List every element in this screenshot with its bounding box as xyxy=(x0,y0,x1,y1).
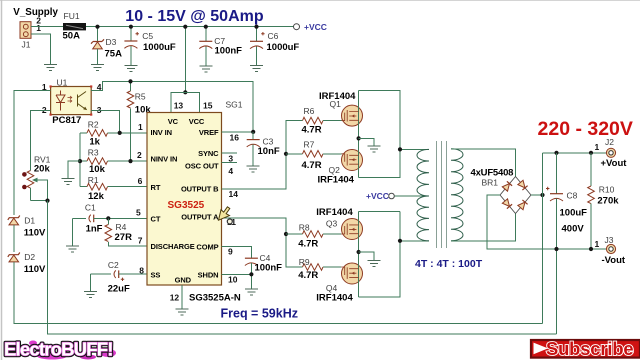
capacitor C8 xyxy=(546,153,587,249)
svg-text:7: 7 xyxy=(138,235,143,245)
ground (C6) xyxy=(250,66,263,72)
transformer core xyxy=(437,141,447,248)
svg-text:10nF: 10nF xyxy=(258,146,280,157)
wire pin12 to ground xyxy=(181,285,183,309)
svg-text:1: 1 xyxy=(595,239,600,249)
svg-text:RT: RT xyxy=(151,183,161,192)
svg-text:-Vout: -Vout xyxy=(602,255,626,266)
svg-text:SHDN: SHDN xyxy=(198,270,219,279)
svg-text:BR1: BR1 xyxy=(482,178,499,188)
svg-text:D3: D3 xyxy=(106,37,117,47)
wire +Vout line xyxy=(543,152,607,154)
connector J2 xyxy=(595,137,628,169)
bridge diode (right-bottom) xyxy=(518,200,528,210)
capacitor C5 xyxy=(124,25,176,66)
svg-text:R2: R2 xyxy=(88,120,99,130)
svg-text:6: 6 xyxy=(138,176,143,186)
svg-text:IRF1404: IRF1404 xyxy=(316,207,353,218)
wire pin4 stub xyxy=(222,162,238,164)
bridge diode (right-top) xyxy=(518,180,528,190)
wire OUTPUT A drive xyxy=(222,218,303,267)
svg-text:10k: 10k xyxy=(89,164,106,175)
ground (J1) xyxy=(44,65,57,71)
ground (D3) xyxy=(91,65,104,71)
svg-text:12k: 12k xyxy=(88,191,105,202)
wire secondary top to bridge xyxy=(451,149,516,177)
Subscribe button xyxy=(531,338,640,359)
svg-text:D1: D1 xyxy=(24,216,35,226)
resistor R6 xyxy=(302,106,342,135)
bridge BR1 diamond xyxy=(500,177,531,214)
svg-text:100nF: 100nF xyxy=(215,46,243,57)
svg-text:1nF: 1nF xyxy=(86,224,103,235)
svg-text:2: 2 xyxy=(137,150,142,160)
transformer T1 primary winding 2 xyxy=(417,196,429,241)
resistor R1 xyxy=(80,175,147,202)
wire Q1/Q2 drain-source box xyxy=(359,91,400,178)
svg-text:VCC: VCC xyxy=(189,117,205,126)
wire opto pin2 to RV1 xyxy=(31,111,51,171)
resistor R5 xyxy=(127,79,151,161)
svg-text:OUTPUT B: OUTPUT B xyxy=(181,184,219,193)
capacitor C2 xyxy=(91,260,149,295)
svg-text:C2: C2 xyxy=(108,260,119,270)
svg-text:4.7R: 4.7R xyxy=(298,270,318,281)
svg-text:20k: 20k xyxy=(34,164,51,175)
capacitor C7 xyxy=(199,25,242,66)
resistor R9 xyxy=(298,257,341,281)
wire D1-D2 xyxy=(13,225,15,252)
transformer T1 secondary winding xyxy=(451,149,463,241)
ground (C7) xyxy=(199,66,212,72)
svg-text:R10: R10 xyxy=(599,185,615,195)
wire R7 tap xyxy=(286,153,303,155)
wire to ground from R3 node xyxy=(68,161,80,178)
svg-text:VC: VC xyxy=(168,117,179,126)
ground (Q3/Q4 sources) xyxy=(357,250,361,254)
wire secondary bottom to bridge xyxy=(451,214,516,241)
transformer T1 primary winding 1 xyxy=(417,149,429,196)
svg-text:5: 5 xyxy=(136,208,141,218)
bridge diode (left-bottom) xyxy=(502,199,512,209)
svg-text:9: 9 xyxy=(228,247,233,257)
svg-text:+VCC: +VCC xyxy=(304,22,327,32)
svg-text:C8: C8 xyxy=(567,191,578,201)
svg-text:SG3525A-N: SG3525A-N xyxy=(189,292,241,303)
optocoupler U1 PC817 xyxy=(42,78,102,126)
svg-text:Q1: Q1 xyxy=(330,99,342,109)
svg-text:1k: 1k xyxy=(89,136,100,147)
svg-text:U1: U1 xyxy=(57,78,68,88)
potentiometer RV1 xyxy=(22,154,51,202)
svg-text:1: 1 xyxy=(36,23,41,33)
svg-text:CT: CT xyxy=(151,215,161,224)
wire primary1 top xyxy=(400,148,429,150)
svg-text:1: 1 xyxy=(595,142,600,152)
node +VCC (top) xyxy=(294,24,300,30)
wire bridge right to +V vertical xyxy=(531,194,543,196)
svg-text:C3: C3 xyxy=(263,137,274,147)
svg-text:INV IN: INV IN xyxy=(151,128,173,137)
svg-text:R5: R5 xyxy=(135,91,146,101)
svg-text:100uF: 100uF xyxy=(560,208,588,219)
svg-text:+VCC: +VCC xyxy=(366,191,389,201)
wire +V vertical down to rail1 xyxy=(542,153,544,324)
wire opto pin1 down left column xyxy=(14,91,51,215)
svg-text:220 - 320V: 220 - 320V xyxy=(538,118,633,140)
wire center tap xyxy=(394,195,429,197)
svg-text:4.7R: 4.7R xyxy=(298,238,318,249)
svg-text:22uF: 22uF xyxy=(108,284,130,295)
svg-text:13: 13 xyxy=(174,101,184,111)
transistor Q2 (mirrored) xyxy=(318,149,363,185)
svg-text:100nF: 100nF xyxy=(255,262,283,273)
svg-text:4.7R: 4.7R xyxy=(302,160,322,171)
transistor Q1 xyxy=(319,91,363,126)
svg-text:COMP: COMP xyxy=(196,243,218,252)
svg-text:75A: 75A xyxy=(105,49,123,60)
ground (C2) xyxy=(84,292,97,298)
svg-text:10 - 15V @ 50Amp: 10 - 15V @ 50Amp xyxy=(125,8,264,25)
svg-text:SG3525: SG3525 xyxy=(168,200,205,211)
ground (C5) xyxy=(124,66,137,72)
svg-text:8: 8 xyxy=(139,265,144,275)
wire J1 pin1 to ground xyxy=(31,34,51,64)
svg-text:270k: 270k xyxy=(597,195,619,206)
wire VCC drop to IC xyxy=(184,27,186,93)
transistor Q3 xyxy=(316,207,362,240)
svg-text:C5: C5 xyxy=(142,31,153,41)
wire D3 stub xyxy=(97,27,99,42)
ground (C4) xyxy=(245,289,258,295)
capacitor C4 xyxy=(245,253,282,289)
node +VCC (center tap) xyxy=(389,193,395,199)
connector J3 xyxy=(595,235,626,266)
resistor R2 xyxy=(80,120,147,148)
svg-text:16: 16 xyxy=(230,132,240,142)
svg-text:400V: 400V xyxy=(562,224,585,235)
svg-text:SS: SS xyxy=(151,270,161,279)
connector J1 xyxy=(13,7,58,50)
wire pin9 to C4 xyxy=(222,246,252,258)
svg-text:SG1: SG1 xyxy=(226,100,243,110)
svg-text:DISCHARGE: DISCHARGE xyxy=(151,242,195,251)
wire rail2 vertical to -Vout xyxy=(556,249,558,334)
svg-text:J1: J1 xyxy=(22,40,31,50)
ground (Q1/Q2 sources) xyxy=(357,136,361,140)
bridge diode (left-top) xyxy=(502,181,512,191)
frame edge lines xyxy=(0,0,640,2)
mouse cursor xyxy=(219,207,233,224)
fuse FU1 xyxy=(63,11,87,41)
ground (pin12) xyxy=(176,309,189,315)
ground (C3) xyxy=(247,166,260,172)
svg-text:14: 14 xyxy=(229,189,239,199)
svg-text:110V: 110V xyxy=(24,228,46,239)
svg-text:VREF: VREF xyxy=(199,128,219,137)
svg-text:IRF1404: IRF1404 xyxy=(318,174,355,185)
wire R2-R3-R1 left vertical xyxy=(79,133,81,187)
svg-text:15: 15 xyxy=(203,101,213,111)
wire pin16 stub xyxy=(222,131,254,133)
svg-text:Q2: Q2 xyxy=(329,165,341,175)
resistor R10 xyxy=(588,153,620,251)
svg-text:Q3: Q3 xyxy=(326,219,338,229)
svg-text:PC817: PC817 xyxy=(52,115,81,126)
svg-text:Freq = 59kHz: Freq = 59kHz xyxy=(221,306,298,320)
wire main +V rail xyxy=(86,26,294,28)
resistor R8 xyxy=(298,223,341,250)
svg-text:SYNC: SYNC xyxy=(198,149,219,158)
svg-text:OSC OUT: OSC OUT xyxy=(185,161,219,170)
svg-text:Subscribe: Subscribe xyxy=(546,338,634,359)
wire RV1 down to feedback rail 2 xyxy=(48,201,557,334)
ground (C1) xyxy=(66,246,79,252)
svg-text:OUTPUT A: OUTPUT A xyxy=(181,212,219,221)
svg-text:4T : 4T : 100T: 4T : 4T : 100T xyxy=(415,258,483,270)
svg-text:R8: R8 xyxy=(299,223,310,233)
capacitor C3 xyxy=(247,132,280,166)
svg-text:12: 12 xyxy=(170,293,180,303)
resistor R3 xyxy=(80,148,147,175)
transistor Q4 (mirrored) xyxy=(316,263,362,304)
svg-text:J3: J3 xyxy=(605,235,614,245)
svg-text:GND: GND xyxy=(175,275,192,284)
wire Q3/Q4 drain-source box xyxy=(359,212,400,298)
svg-text:1000uF: 1000uF xyxy=(143,42,176,53)
svg-text:C6: C6 xyxy=(268,31,279,41)
ground (R3 node) xyxy=(61,179,74,185)
wire OUTPUT B drive xyxy=(222,121,303,189)
svg-text:C1: C1 xyxy=(85,202,96,212)
wire pin10 to C4 bottom xyxy=(222,273,252,275)
svg-text:4: 4 xyxy=(228,166,233,176)
wire J1 pin2 to FU1 xyxy=(31,26,63,28)
capacitor C1 xyxy=(73,202,147,246)
svg-text:ElectroBUFF!: ElectroBUFF! xyxy=(4,339,113,360)
wire D2 down to feedback rail 1 xyxy=(14,262,543,324)
svg-text:10: 10 xyxy=(228,275,238,285)
diode D3 xyxy=(91,37,122,60)
svg-text:J2: J2 xyxy=(605,137,614,147)
wire bridge left to -Vout line xyxy=(487,195,607,249)
wire R8 tap xyxy=(286,233,303,235)
zener D2 xyxy=(8,252,46,275)
svg-text:R4: R4 xyxy=(116,222,127,232)
wire bracket pins 13/15 xyxy=(171,92,200,112)
wire pin3 stub xyxy=(222,152,238,154)
svg-text:50A: 50A xyxy=(63,30,81,41)
svg-text:R9: R9 xyxy=(299,257,310,267)
svg-text:R1: R1 xyxy=(88,175,99,185)
svg-text:IRF1404: IRF1404 xyxy=(316,293,353,304)
svg-text:NINV IN: NINV IN xyxy=(151,154,178,163)
resistor R4 xyxy=(105,218,147,245)
svg-text:1: 1 xyxy=(138,122,143,132)
svg-text:1000uF: 1000uF xyxy=(267,42,300,53)
svg-text:4.7R: 4.7R xyxy=(302,124,322,135)
wire primary2 bottom xyxy=(400,240,429,242)
svg-text:+Vout: +Vout xyxy=(601,158,628,169)
zener D1 xyxy=(8,216,46,239)
wire opto pin3 down to R2 node xyxy=(91,111,120,133)
resistor R7 xyxy=(302,140,342,171)
svg-text:R7: R7 xyxy=(304,140,315,150)
op IC U2 SG3525 body xyxy=(136,100,243,304)
capacitor C6 xyxy=(250,25,299,66)
svg-text:FU1: FU1 xyxy=(64,11,80,21)
wire opto pin4 to VREF rail xyxy=(91,81,253,131)
svg-text:D2: D2 xyxy=(24,252,35,262)
svg-text:27R: 27R xyxy=(115,232,133,243)
ElectroBUFF logo xyxy=(4,339,116,360)
svg-text:R6: R6 xyxy=(304,106,315,116)
svg-text:R3: R3 xyxy=(88,148,99,158)
svg-text:110V: 110V xyxy=(24,264,46,275)
